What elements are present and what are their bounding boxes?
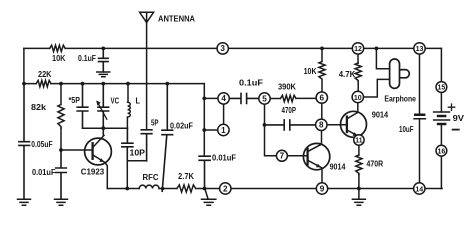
transistor Q1 C1923 <box>85 128 112 188</box>
node 15 <box>436 82 447 93</box>
capacitor 0.1uF (between node4 and node5) <box>229 93 258 103</box>
wire left column top (corner to lower rail) <box>23 48 25 83</box>
junction dot (470P tap) <box>263 123 267 127</box>
node 9 <box>316 183 327 194</box>
inductor L (tank coil) <box>127 84 130 129</box>
svg-text:470R: 470R <box>367 159 384 168</box>
junction dot (0.02uF / rail2) <box>165 82 169 86</box>
wire node5 down to node7 row <box>265 104 277 156</box>
wire node16 to bottom-right corner <box>440 156 443 188</box>
svg-text:9014: 9014 <box>330 163 346 172</box>
node 5 <box>259 93 270 104</box>
svg-text:2: 2 <box>223 184 228 193</box>
wire node12 to 4.7K <box>357 54 359 63</box>
ground (left column bottom) <box>18 199 31 205</box>
wire earphone lead 2 (from node10) <box>364 79 390 97</box>
svg-text:VC: VC <box>111 96 120 105</box>
wire antenna lead down (crosses both rails, no dots) <box>146 23 148 130</box>
capacitor 10P <box>122 128 133 161</box>
earphone <box>390 59 410 88</box>
wire bottom rail (y=188.5) <box>107 188 442 190</box>
junction dot (10K right / top rail) <box>320 47 324 51</box>
svg-text:4: 4 <box>221 94 226 103</box>
svg-text:10: 10 <box>354 93 362 102</box>
junction dot (left column / rail2) <box>22 82 26 86</box>
junction dot (0.02uF / bottom rail) <box>161 187 165 191</box>
resistor R 22K (horizontal) <box>36 80 51 86</box>
svg-text:9: 9 <box>320 184 325 193</box>
node 1 <box>218 124 229 135</box>
capacitor 0.1uF (top-left, to ground) <box>99 48 109 71</box>
svg-text:16: 16 <box>438 146 446 155</box>
transistor Q2 9014 (first audio stage) <box>303 143 329 182</box>
node 16 <box>436 145 447 156</box>
svg-text:470P: 470P <box>282 106 297 115</box>
svg-text:9V: 9V <box>453 114 465 123</box>
inductor RFC (in bottom rail) <box>139 185 159 188</box>
svg-text:5P: 5P <box>151 119 159 128</box>
wire node4 stub <box>204 97 218 99</box>
junction dot (VC / rail2) <box>101 82 105 86</box>
svg-text:C1923: C1923 <box>81 167 105 177</box>
wire node6 to node8 <box>321 103 323 119</box>
capacitor 0.02uF <box>162 84 173 192</box>
svg-text:22K: 22K <box>38 69 52 79</box>
node 14 <box>414 183 425 194</box>
wire top-right corner down to node15 <box>440 48 442 81</box>
resistor R 390K (horizontal) <box>280 95 296 101</box>
svg-text:1: 1 <box>221 126 226 135</box>
junction dot (collector riser / bus) <box>101 126 105 130</box>
antenna <box>140 12 154 22</box>
capacitor *5P (tank) <box>77 84 88 129</box>
svg-text:4.7K: 4.7K <box>339 70 356 79</box>
capacitor 470P <box>265 120 316 130</box>
wire node8 to Q2 collector <box>321 131 323 145</box>
junction dot (node4 stub) <box>202 97 206 101</box>
svg-text:3: 3 <box>220 44 225 53</box>
svg-text:ANTENNA: ANTENNA <box>158 14 195 24</box>
svg-text:6: 6 <box>320 93 325 102</box>
svg-text:2.7K: 2.7K <box>178 171 195 181</box>
wire second rail (y=83.6) <box>24 83 204 85</box>
node 7 <box>276 150 287 161</box>
junction dot (earphone / top rail) <box>375 47 379 51</box>
node 11 <box>354 135 364 145</box>
capacitor 10uF (electrolytic) <box>414 114 425 183</box>
resistor R 10K (top-left, horizontal) <box>50 45 65 51</box>
node 12 <box>352 43 363 54</box>
resistor R 470R (vertical) <box>356 155 362 175</box>
junction dot (base node) <box>59 148 63 152</box>
wire rail2 corner column (to nodes 4,1 and 0.01uF) <box>203 84 205 156</box>
node 6 <box>316 92 327 103</box>
wire 5P branch to 10P line <box>127 161 146 189</box>
junction dot (82k / rail2) <box>59 82 63 86</box>
resistor R 10K (right, vertical) <box>319 48 325 92</box>
junction dot (L / rail2) <box>126 82 130 86</box>
wire node5 to 390K and node6 <box>270 97 316 99</box>
svg-text:*5P: *5P <box>69 96 81 105</box>
svg-text:14: 14 <box>415 184 424 193</box>
resistor R 2.7K (horizontal, bottom rail) <box>177 185 196 192</box>
svg-text:0.02uF: 0.02uF <box>170 122 193 131</box>
svg-text:10P: 10P <box>130 149 146 158</box>
junction dot (node1 stub) <box>202 128 206 132</box>
svg-text:L: L <box>136 97 141 106</box>
junction dot (470R / bottom rail) <box>357 187 361 191</box>
wire 470R to bottom rail <box>358 175 360 189</box>
svg-text:10K: 10K <box>52 53 66 63</box>
svg-text:RFC: RFC <box>143 172 159 182</box>
wire 82k to base junction <box>60 128 62 150</box>
node 3 <box>217 43 228 54</box>
wire tank bottom bus <box>83 127 128 129</box>
wire node1 stub <box>204 129 217 131</box>
capacitor 0.05uF (left column) <box>19 84 30 199</box>
wire node15 to battery <box>440 93 442 112</box>
node 13 <box>414 43 425 54</box>
svg-text:0.01uF: 0.01uF <box>212 153 236 162</box>
svg-text:0.1uF: 0.1uF <box>78 53 96 63</box>
resistor R 4.7K (vertical) <box>355 63 361 82</box>
wire node13 column to 10uF <box>419 54 421 113</box>
ground (below bottom rail, middle) <box>202 189 216 206</box>
svg-text:Earphone: Earphone <box>384 94 416 103</box>
svg-text:390K: 390K <box>278 82 296 91</box>
capacitor 0.01uF (left column) <box>56 150 67 199</box>
capacitor 5P (antenna coupling) <box>141 130 152 161</box>
node 2 <box>220 183 231 194</box>
wire base lead C1923 <box>61 149 92 151</box>
svg-text:10K: 10K <box>304 67 317 76</box>
svg-text:0.01uF: 0.01uF <box>32 167 56 177</box>
wire node7 to Q2 base <box>287 155 307 157</box>
svg-text:12: 12 <box>354 44 362 53</box>
svg-text:7: 7 <box>280 152 285 161</box>
wire node8 to Q3 base <box>327 124 347 126</box>
wire 4.7K to node10 <box>357 82 359 92</box>
ground (under 0.01uF) <box>55 199 68 205</box>
resistor R 82k (vertical) <box>58 84 64 128</box>
svg-text:0.1uF: 0.1uF <box>239 78 263 87</box>
svg-text:8: 8 <box>319 121 324 130</box>
node 4 <box>218 93 229 104</box>
junction dot (*5P / rail2) <box>81 82 85 86</box>
svg-text:15: 15 <box>438 83 446 92</box>
svg-text:82k: 82k <box>31 102 46 112</box>
wire node11 to 470R <box>358 145 360 155</box>
wire collector riser <box>102 128 104 135</box>
junction dot (0.01uF / bottom rail) <box>203 187 207 191</box>
junction dot (0.1uF / top rail) <box>101 47 105 51</box>
svg-text:10uF: 10uF <box>399 125 414 134</box>
svg-text:0.05uF: 0.05uF <box>31 139 52 149</box>
wire node10 to Q3 collector <box>357 103 359 113</box>
svg-text:5: 5 <box>262 94 267 103</box>
node 8 <box>316 119 327 130</box>
ground (below 470R) <box>352 189 365 206</box>
wire battery to node16 <box>440 124 442 145</box>
wire top rail V+ (y=48.4) <box>24 47 442 49</box>
battery 9V <box>434 104 459 130</box>
transistor Q3 9014 (second audio stage) <box>341 111 367 137</box>
svg-text:9014: 9014 <box>372 110 389 119</box>
svg-text:11: 11 <box>355 136 362 145</box>
wire earphone lead 1 <box>376 48 389 68</box>
node 10 <box>352 91 363 102</box>
junction dot (10P line / bottom rail) <box>125 187 129 191</box>
variable capacitor VC <box>96 84 108 129</box>
svg-text:13: 13 <box>416 44 424 53</box>
ground (under 0.1uF top-left) <box>97 72 110 77</box>
wire node4 to node1 <box>223 104 225 124</box>
capacitor 0.01uF (middle) <box>199 156 210 188</box>
